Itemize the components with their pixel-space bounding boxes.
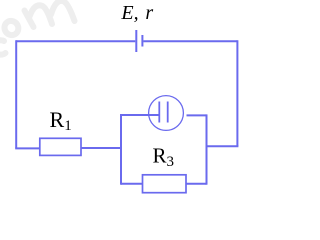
wire: connector to outer loop	[207, 145, 239, 147]
wire: R1 to parallel block	[81, 147, 122, 149]
battery E,r long plate	[135, 30, 137, 52]
wire: left side	[15, 40, 17, 148]
svg-text:E,r: E,r	[120, 2, 153, 24]
wire: galvanometer to right bus	[187, 114, 207, 116]
resistor R3	[143, 175, 187, 193]
wire: top right segment	[143, 40, 237, 42]
wire: right side	[236, 40, 238, 146]
wire: R1 branch left	[15, 147, 40, 149]
resistor R1	[40, 138, 81, 155]
wire: top left segment	[16, 40, 135, 42]
watermark	[0, 1, 75, 55]
wire: right bus of parallel block	[206, 114, 208, 184]
svg-text:R1: R1	[50, 107, 72, 134]
battery E,r short plate	[141, 35, 143, 47]
wire: R3 to right bus	[186, 183, 207, 185]
wire: left bus of parallel block	[120, 114, 122, 185]
svg-text:R3: R3	[153, 144, 175, 171]
galvanometer G circle	[149, 96, 184, 131]
wire: top branch to galvanometer	[121, 114, 159, 116]
galvanometer left plate	[158, 102, 160, 123]
galvanometer right plate	[167, 102, 169, 123]
wire: R3 branch left	[121, 183, 143, 185]
